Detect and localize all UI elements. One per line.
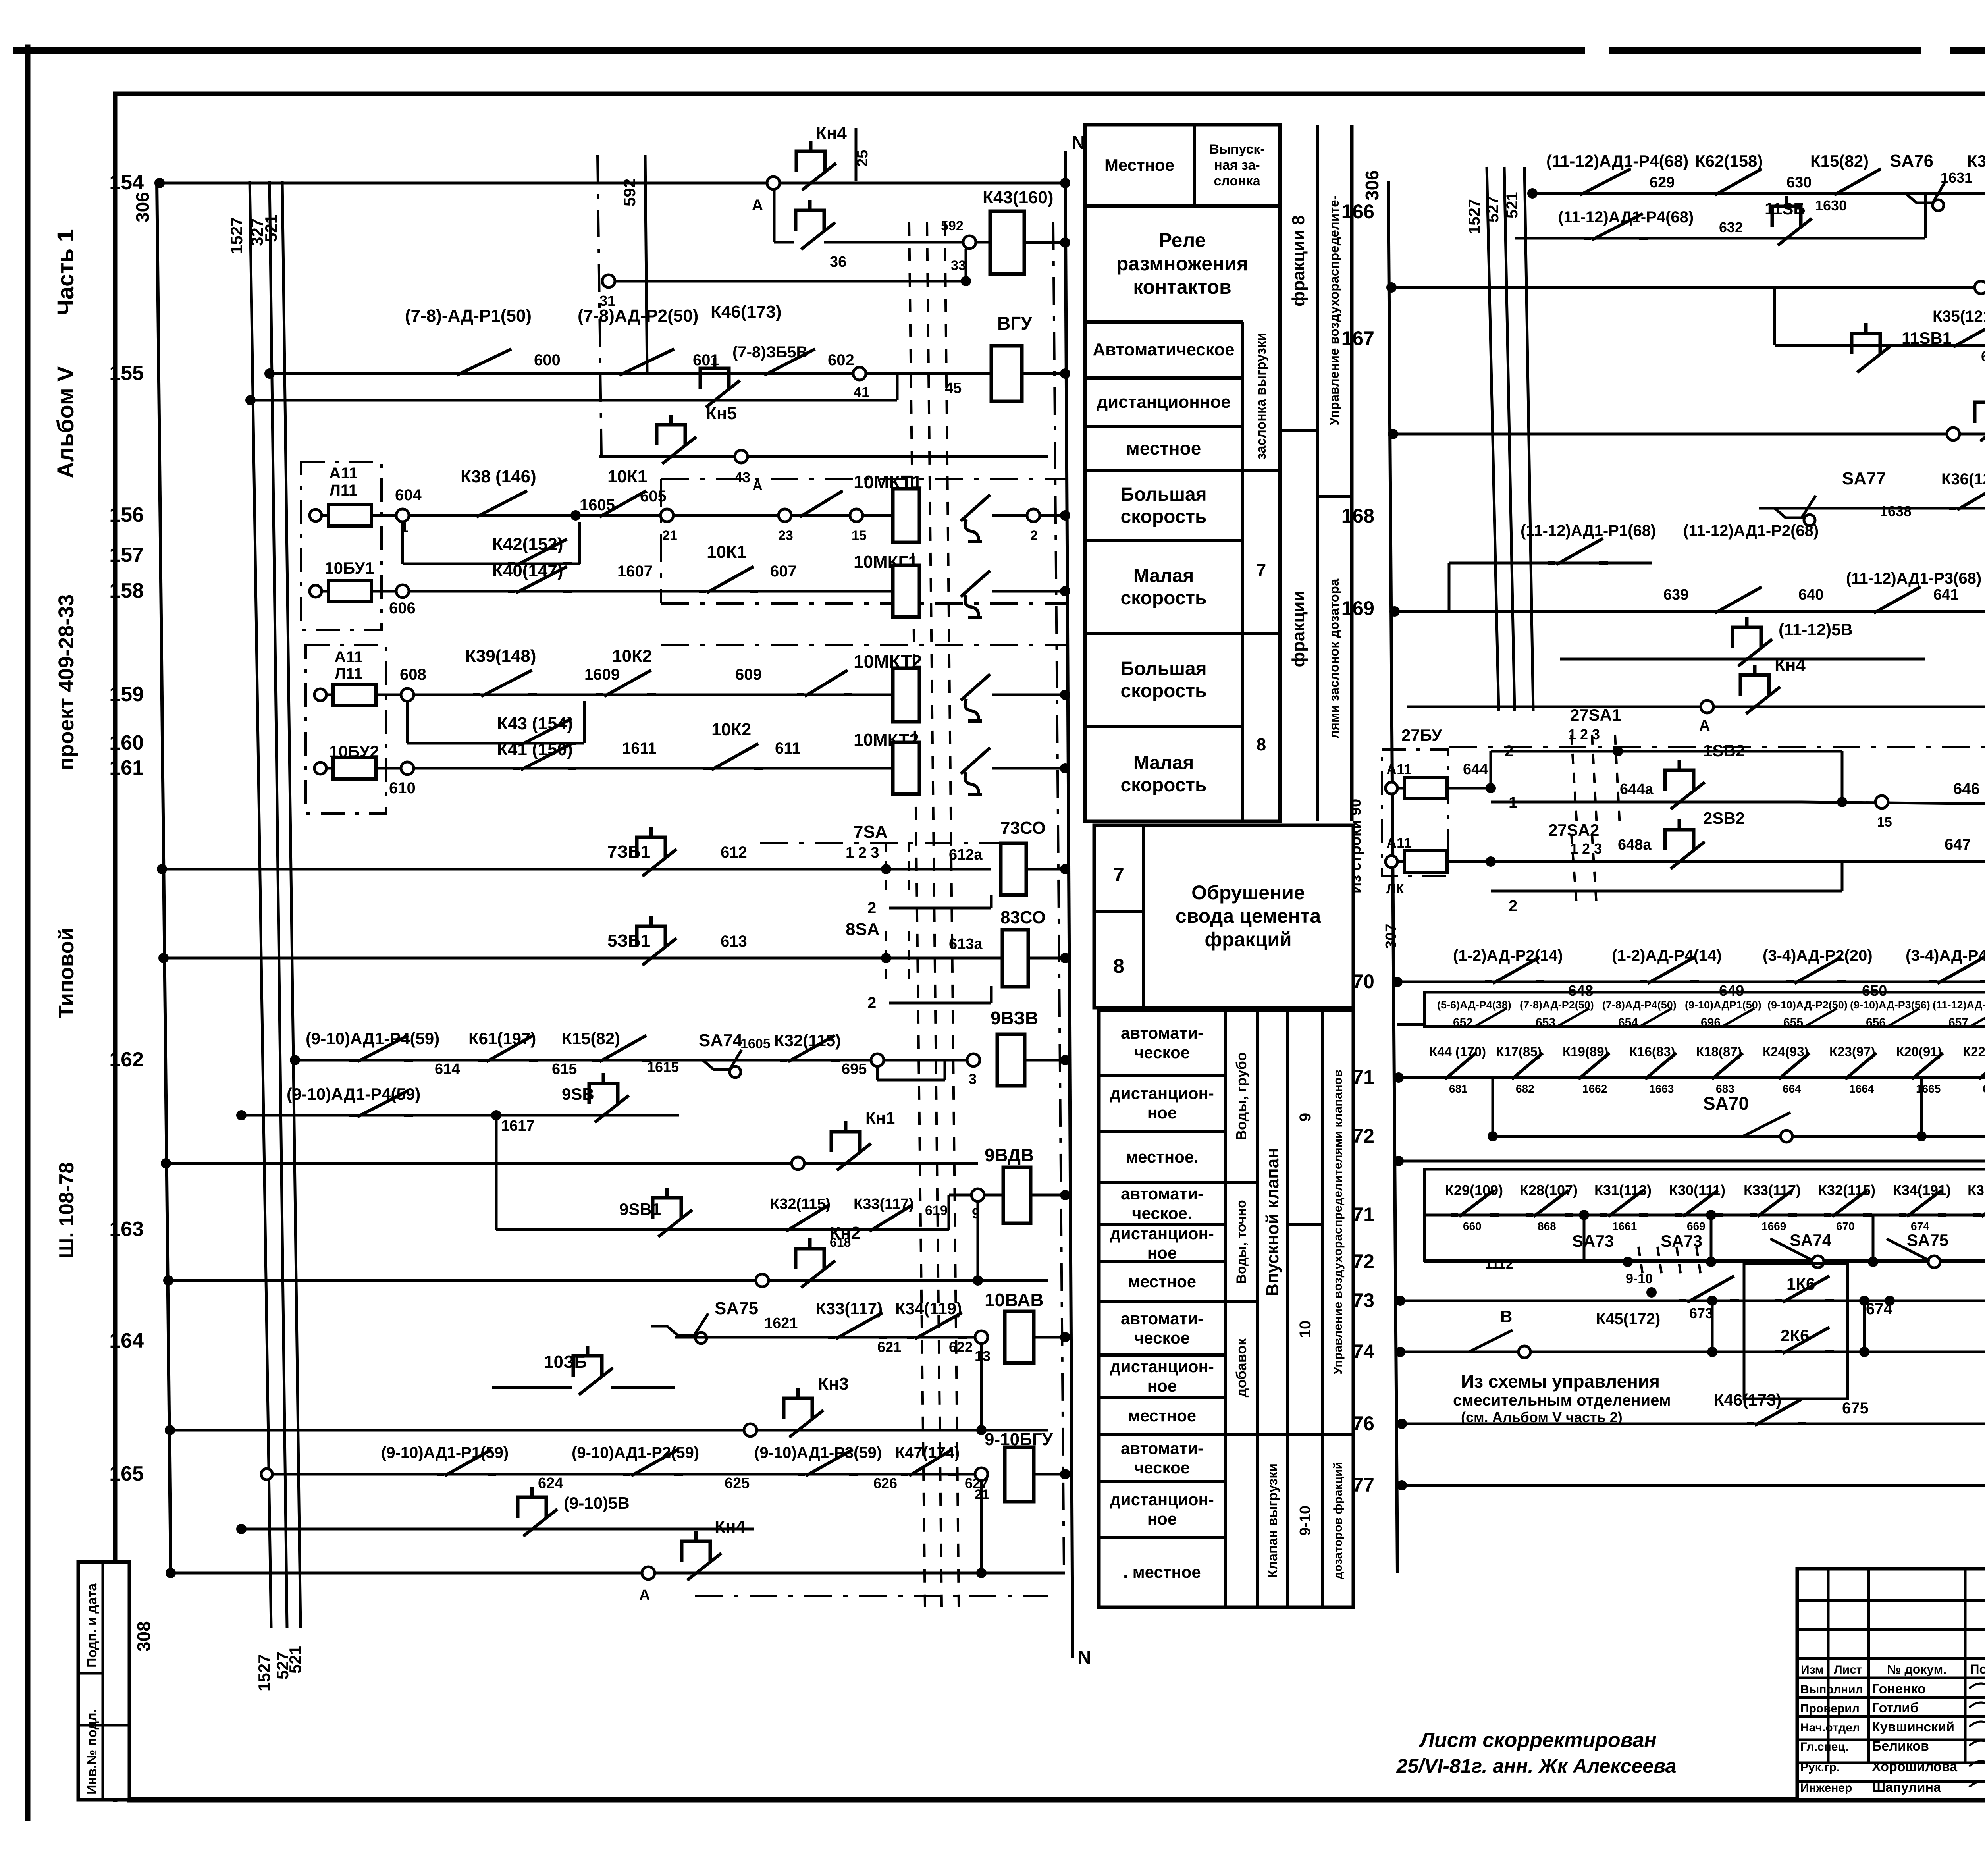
pushbutton contact: [518, 1487, 546, 1518]
wire: [1094, 910, 1143, 913]
svg-text:1661: 1661: [1612, 1220, 1637, 1232]
contact: [623, 1473, 683, 1476]
contact: [1637, 1076, 1681, 1079]
wire row 158: [373, 590, 893, 593]
wire row 173: [1400, 1300, 1985, 1302]
svg-text:SA77: SA77: [1842, 469, 1886, 488]
wire: [992, 694, 1065, 696]
svg-text:Шапулина: Шапулина: [1872, 1780, 1941, 1795]
svg-text:162: 162: [109, 1048, 144, 1071]
junction: [158, 953, 169, 963]
wire: [1797, 1715, 1985, 1718]
svg-text:1665: 1665: [1916, 1083, 1941, 1095]
box 1К6 2К6: [1744, 1263, 1848, 1399]
section dash-dot line: [1053, 222, 1064, 1572]
svg-text:159: 159: [109, 683, 144, 706]
svg-text:К16(83): К16(83): [1629, 1044, 1675, 1059]
svg-text:1630: 1630: [1815, 197, 1847, 214]
wire: [1797, 1696, 1985, 1699]
wire: [1490, 751, 1492, 788]
svg-text:SA74: SA74: [1790, 1231, 1832, 1249]
svg-text:1638: 1638: [1880, 503, 1912, 519]
wire: [78, 1672, 103, 1675]
wire: [1592, 834, 1597, 909]
svg-text:675: 675: [1842, 1400, 1869, 1417]
wire: [992, 767, 1065, 770]
svg-text:1669: 1669: [1761, 1220, 1786, 1232]
svg-text:Подпись: Подпись: [1970, 1662, 1985, 1676]
svg-text:(1-2)АД-Р4(14): (1-2)АД-Р4(14): [1612, 947, 1722, 964]
wire SA75 row: [675, 1336, 953, 1339]
svg-text:647: 647: [1945, 836, 1971, 853]
wire: [1099, 1396, 1225, 1399]
wire: [1677, 1247, 1682, 1280]
junction: [1859, 1296, 1869, 1306]
fuse: [314, 689, 326, 701]
wire К43 branch: [407, 742, 584, 745]
svg-text:Малая: Малая: [1133, 752, 1194, 773]
svg-text:622: 622: [949, 1339, 973, 1355]
svg-text:8: 8: [1257, 735, 1266, 754]
svg-text:10К2: 10К2: [612, 646, 652, 666]
junction: [290, 1055, 300, 1065]
svg-text:682: 682: [1516, 1083, 1534, 1095]
wire: [1225, 1433, 1288, 1436]
svg-text:Впускной клапан: Впускной клапан: [1263, 1148, 1282, 1296]
svg-text:73СО: 73СО: [1000, 818, 1046, 838]
wire: [1592, 735, 1597, 826]
svg-text:дистанцион-: дистанцион-: [1110, 1357, 1214, 1376]
svg-text:9ВДВ: 9ВДВ: [985, 1145, 1034, 1165]
wire: [1280, 429, 1317, 432]
svg-text:621: 621: [877, 1339, 901, 1355]
contact: [792, 514, 848, 517]
wire row 646: [1802, 802, 1985, 806]
wire: [1797, 1628, 1985, 1631]
svg-text:В: В: [1500, 1307, 1512, 1326]
relay coil: [893, 742, 919, 794]
svg-text:Большая: Большая: [1120, 484, 1206, 505]
svg-text:1621: 1621: [764, 1315, 798, 1332]
contact strip box row 170: [1424, 992, 1985, 1026]
svg-text:(7-8)АД-Р2(50): (7-8)АД-Р2(50): [1520, 999, 1594, 1011]
table cell: [1085, 125, 1280, 821]
svg-text:добавок: добавок: [1233, 1338, 1249, 1398]
svg-text:Кн5: Кн5: [706, 404, 737, 423]
wire: [953, 1336, 981, 1339]
relay coil: [1005, 1447, 1034, 1502]
wire: [1256, 1010, 1259, 1301]
wire: [927, 222, 942, 1607]
svg-text:868: 868: [1538, 1220, 1556, 1232]
pushbutton contact: [1740, 665, 1769, 696]
junction: [1393, 1072, 1404, 1083]
wire row 170: [1397, 981, 1985, 983]
junction: [570, 510, 581, 521]
svg-text:629: 629: [1650, 174, 1675, 191]
svg-text:К35(121): К35(121): [1967, 152, 1985, 170]
svg-text:К46(173): К46(173): [711, 302, 782, 322]
wire row 174: [1400, 1351, 1985, 1353]
wire row 161: [378, 767, 893, 770]
wire row 166 branch: [1515, 237, 1925, 240]
fuse unit block 27БУ: [1382, 750, 1448, 876]
svg-text:168: 168: [1341, 505, 1374, 527]
junction: [1397, 1480, 1407, 1490]
svg-text:автомати-: автомати-: [1121, 1024, 1203, 1042]
contact: [1775, 1350, 1834, 1353]
svg-text:ное: ное: [1147, 1510, 1177, 1528]
wire: [1099, 1353, 1225, 1357]
wire row 168b: [1759, 507, 1985, 510]
wire: [1099, 1433, 1225, 1436]
svg-text:165: 165: [109, 1462, 144, 1485]
wire row 172b: [1399, 1160, 1985, 1163]
junction: [1859, 1347, 1869, 1357]
svg-text:9SB1: 9SB1: [619, 1200, 661, 1219]
svg-text:644а: 644а: [1620, 781, 1654, 798]
svg-text:К34(119): К34(119): [895, 1299, 962, 1318]
junction: [245, 395, 256, 405]
svg-text:2: 2: [867, 899, 876, 917]
junction: [1060, 368, 1070, 379]
junction: [491, 1110, 501, 1120]
wire: [1841, 751, 1844, 802]
svg-text:контактов: контактов: [1133, 276, 1231, 298]
wire row 166: [1532, 192, 1985, 195]
contact: [1747, 1422, 1806, 1425]
dash-dot cabinet box 10МКТ2 bottom: [760, 842, 1002, 844]
wire: [1085, 469, 1243, 472]
svg-text:К28(107): К28(107): [1520, 1182, 1578, 1198]
thermal contact: [961, 571, 990, 597]
wire: [1024, 241, 1065, 244]
wire branch 2: [889, 907, 991, 910]
wire: [885, 931, 887, 986]
svg-text:Кн3: Кн3: [818, 1374, 849, 1394]
wire row 176: [1402, 1423, 1985, 1425]
svg-text:1 2 3: 1 2 3: [1568, 726, 1600, 742]
wire: [250, 181, 271, 1628]
svg-text:№ докум.: № докум.: [1887, 1662, 1946, 1676]
wire: [1924, 193, 1927, 238]
dash-dot link line: [597, 155, 601, 457]
svg-text:613: 613: [721, 933, 747, 950]
svg-text:К15(82): К15(82): [562, 1029, 620, 1048]
wire: [1964, 1569, 1967, 1763]
svg-text:К36(123): К36(123): [1968, 1182, 1985, 1198]
junction: [961, 276, 971, 286]
svg-text:2: 2: [1030, 528, 1038, 543]
svg-text:1112: 1112: [1485, 1257, 1513, 1272]
svg-text:(7-8)АД-Р4(50): (7-8)АД-Р4(50): [1602, 999, 1677, 1011]
svg-text:10ВАВ: 10ВАВ: [985, 1290, 1044, 1310]
contact: [592, 1059, 651, 1062]
wire: [1099, 1130, 1225, 1133]
wire: [1085, 320, 1243, 324]
svg-text:К34(191): К34(191): [1893, 1182, 1951, 1198]
wire row 171: [1399, 1076, 1985, 1079]
contact strip box row 171b: [1424, 1169, 1985, 1261]
contact: [1949, 507, 1985, 510]
svg-text:Инв.№ подл.: Инв.№ подл.: [85, 1709, 100, 1795]
svg-text:Выпуск-: Выпуск-: [1209, 142, 1264, 157]
svg-text:Подп. и дата: Подп. и дата: [85, 1583, 100, 1668]
wire: [1487, 167, 1499, 711]
svg-text:608: 608: [400, 666, 426, 683]
wire: [1797, 1677, 1985, 1679]
contact: [596, 693, 656, 696]
junction: [1060, 953, 1070, 963]
pushbutton contact: [1975, 392, 1985, 423]
svg-text:1663: 1663: [1649, 1083, 1674, 1095]
junction: [1388, 429, 1398, 439]
svg-text:15: 15: [1877, 815, 1892, 830]
svg-text:164: 164: [109, 1329, 144, 1352]
svg-text:(9-10)АД1-Р1(59): (9-10)АД1-Р1(59): [381, 1444, 509, 1461]
svg-text:8: 8: [1113, 955, 1124, 977]
junction: [881, 953, 891, 963]
contact: [1526, 1213, 1573, 1217]
wire: [1797, 1657, 1985, 1660]
dash-dot cabinet box 10МКТ2 top: [661, 644, 1068, 646]
wire row 165: [267, 1473, 981, 1476]
svg-text:местное: местное: [1128, 1406, 1196, 1425]
svg-text:Реле: Реле: [1159, 229, 1206, 251]
svg-text:2: 2: [867, 994, 876, 1012]
wire Кн4 row right: [1407, 706, 1985, 708]
wire: [1920, 1078, 1923, 1136]
contact: [778, 1228, 834, 1231]
wire: [877, 1079, 945, 1082]
svg-text:7: 7: [1113, 864, 1124, 886]
contact: [1704, 1076, 1748, 1079]
wire: [615, 280, 966, 283]
svg-text:(7-8)АД-Р2(50): (7-8)АД-Р2(50): [578, 306, 698, 326]
contact: [901, 1473, 957, 1476]
pushbutton contact: [796, 141, 825, 172]
fuse: [1386, 782, 1397, 794]
wire (11-12)5В: [1560, 658, 1925, 661]
contact: [1707, 610, 1767, 613]
svg-text:1527: 1527: [227, 217, 246, 254]
relay coil: [893, 565, 919, 617]
wire: [1241, 322, 1244, 821]
wire: [1615, 735, 1620, 826]
contact: [611, 372, 679, 375]
svg-text:648а: 648а: [1618, 837, 1652, 853]
left neutral bus N: [1065, 151, 1073, 1658]
svg-text:9ВЗВ: 9ВЗВ: [991, 1008, 1038, 1028]
wire: [1085, 425, 1243, 428]
svg-text:А: А: [639, 1587, 650, 1604]
junction: [1885, 1296, 1895, 1306]
svg-text:521: 521: [262, 214, 280, 242]
wire: [1278, 125, 1282, 821]
wire: [495, 1115, 498, 1230]
svg-text:602: 602: [828, 351, 854, 369]
svg-text:К36(123): К36(123): [1941, 470, 1985, 488]
junction: [1060, 864, 1070, 874]
svg-text:11SВ1: 11SВ1: [1902, 329, 1952, 347]
svg-text:ческое: ческое: [1134, 1043, 1190, 1062]
wire: [1424, 1026, 1985, 1027]
dash-dot bottom: [695, 1595, 1048, 1597]
svg-text:Готлиб: Готлиб: [1872, 1701, 1918, 1716]
wire: [270, 181, 287, 1628]
svg-text:дозаторов фракций: дозаторов фракций: [1332, 1462, 1345, 1579]
junction: [1060, 237, 1070, 248]
svg-text:Гл.спец.: Гл.спец.: [1800, 1740, 1848, 1753]
junction: [1060, 1332, 1070, 1342]
wire: [1288, 1433, 1323, 1436]
wire: [1445, 787, 1491, 790]
sheet top border segment 1: [16, 47, 1582, 54]
svg-text:1 2 3: 1 2 3: [1570, 841, 1602, 857]
svg-text:фракции 8: фракции 8: [1289, 215, 1308, 307]
svg-text:2: 2: [1505, 742, 1513, 760]
svg-text:А11: А11: [1386, 835, 1412, 851]
wire: [992, 590, 1065, 593]
wire: [1243, 469, 1280, 472]
svg-text:156: 156: [109, 503, 144, 526]
contact: [1775, 1299, 1834, 1302]
contact: [1707, 192, 1767, 195]
wire row 171b: [1424, 1214, 1985, 1217]
thermal contact: [961, 748, 990, 774]
svg-text:612: 612: [721, 844, 747, 861]
svg-text:автомати-: автомати-: [1121, 1439, 1203, 1458]
fuse: [310, 509, 322, 521]
svg-text:624: 624: [538, 1475, 563, 1492]
wire: [980, 1344, 983, 1430]
wire row 169: [1395, 610, 1985, 613]
svg-text:скорость: скорость: [1120, 681, 1206, 702]
svg-text:2SB2: 2SB2: [1703, 809, 1745, 827]
svg-text:3: 3: [969, 1071, 977, 1087]
wire: [1321, 1010, 1324, 1607]
svg-text:610: 610: [389, 779, 416, 797]
svg-text:(5-6)АД-Р4(38): (5-6)АД-Р4(38): [1437, 999, 1511, 1011]
svg-text:664: 664: [1783, 1083, 1801, 1095]
wire: [1142, 825, 1145, 1008]
svg-text:655: 655: [1783, 1016, 1803, 1029]
svg-text:7ЗБ1: 7ЗБ1: [607, 842, 650, 862]
svg-text:К15(82): К15(82): [1810, 152, 1869, 170]
svg-text:Малая: Малая: [1133, 565, 1194, 586]
wire: [1193, 125, 1196, 206]
pushbutton Кн4 top: [767, 177, 780, 189]
wire: [1225, 1300, 1258, 1303]
contact: [1786, 980, 1846, 983]
svg-text:ное: ное: [1147, 1377, 1177, 1395]
junction: [154, 178, 165, 188]
svg-text:161: 161: [109, 756, 144, 779]
svg-text:Кн4: Кн4: [715, 1517, 746, 1537]
svg-text:27SA1: 27SA1: [1570, 706, 1621, 724]
svg-text:21: 21: [662, 528, 677, 543]
svg-text:SA75: SA75: [715, 1299, 758, 1318]
wire row 155: [270, 372, 1065, 375]
fuse unit block 10БУ1: [301, 462, 382, 630]
contact: [1971, 1076, 1985, 1079]
pushbutton contact: [657, 415, 685, 445]
junction: [264, 368, 275, 379]
table cell: [1099, 1010, 1353, 1607]
contact: [508, 562, 572, 565]
svg-text:9-10: 9-10: [1626, 1271, 1653, 1286]
svg-text:609: 609: [735, 666, 762, 683]
svg-text:639: 639: [1663, 586, 1688, 603]
contact: [349, 1059, 413, 1062]
junction: [881, 864, 891, 874]
contact: [592, 514, 651, 517]
fuse: [1386, 856, 1397, 868]
relay coil: [1003, 1167, 1031, 1223]
contact: [1485, 980, 1544, 983]
wire: [661, 602, 1068, 605]
svg-text:600: 600: [534, 351, 561, 369]
svg-text:(11-12)АД1-Р1(68): (11-12)АД1-Р1(68): [1521, 522, 1656, 540]
svg-text:Изм: Изм: [1801, 1663, 1824, 1676]
wire: [990, 895, 993, 908]
svg-text:632: 632: [1719, 219, 1743, 235]
svg-text:652: 652: [1453, 1016, 1473, 1029]
pushbutton contact: [1665, 760, 1694, 791]
contact: [513, 767, 576, 770]
contact: [1866, 610, 1925, 613]
wire: [1445, 860, 1491, 863]
svg-text:Ш. 108-78: Ш. 108-78: [55, 1162, 78, 1259]
wire: [401, 522, 404, 564]
svg-text:10К1: 10К1: [607, 467, 647, 486]
svg-text:свода цемента: свода цемента: [1176, 905, 1322, 927]
junction: [1837, 797, 1847, 807]
contact: [1824, 1213, 1872, 1217]
svg-text:9-10: 9-10: [1297, 1506, 1314, 1536]
svg-text:автомати-: автомати-: [1121, 1309, 1203, 1328]
svg-text:7: 7: [1257, 560, 1266, 580]
contact: [1548, 561, 1608, 565]
wire row 162 branch: [241, 1114, 679, 1117]
wire row 155 branch: [251, 399, 897, 402]
svg-text:615: 615: [552, 1061, 577, 1078]
svg-text:(11-12)АД-Р1(59): (11-12)АД-Р1(59): [1933, 999, 1985, 1011]
svg-text:10: 10: [1297, 1321, 1314, 1338]
svg-text:местное.: местное.: [1125, 1147, 1199, 1166]
pushbutton contact: [796, 1238, 824, 1269]
wire: [896, 374, 899, 400]
svg-text:23: 23: [778, 528, 793, 543]
sidebar stamp boxes: [78, 1562, 129, 1800]
svg-text:604: 604: [395, 486, 422, 504]
svg-text:1607: 1607: [617, 563, 653, 580]
svg-text:158: 158: [109, 579, 144, 602]
svg-text:640: 640: [1798, 586, 1823, 603]
contact: [508, 590, 572, 593]
contact: [780, 1059, 840, 1062]
fuse unit block 10БУ2: [306, 645, 386, 814]
svg-text:К22(95): К22(95): [1963, 1044, 1985, 1059]
svg-text:(11-12)АД1-Р3(68): (11-12)АД1-Р3(68): [1846, 570, 1981, 587]
svg-text:К43(160): К43(160): [983, 188, 1054, 207]
wire: [1243, 632, 1280, 635]
wire: [660, 479, 662, 603]
svg-text:626: 626: [873, 1475, 897, 1491]
svg-text:521: 521: [1503, 192, 1521, 218]
contact: [349, 1114, 413, 1117]
wire: [1031, 1194, 1065, 1197]
